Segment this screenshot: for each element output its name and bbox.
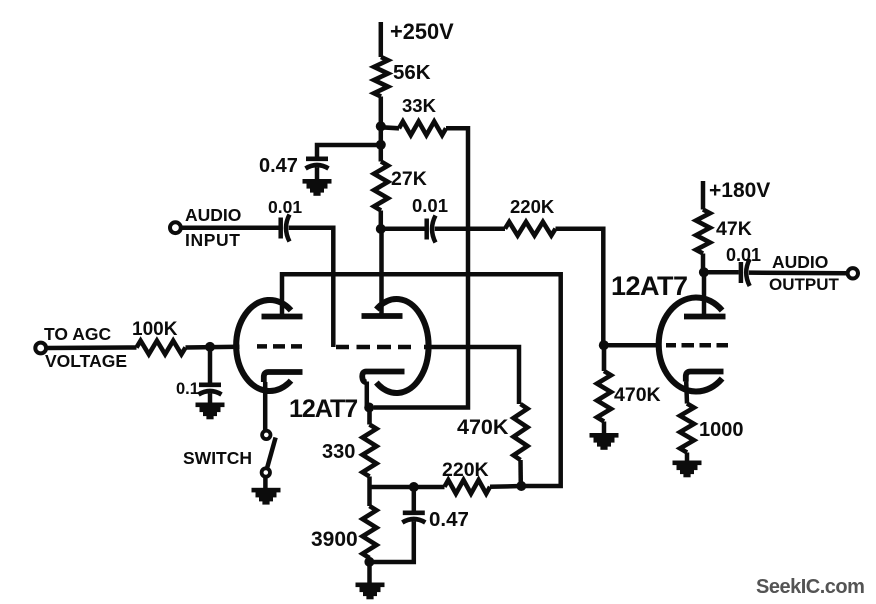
svg-text:INPUT: INPUT [185, 230, 241, 250]
svg-text:SeekIC.com: SeekIC.com [756, 576, 864, 598]
resistor 3900 [311, 506, 377, 558]
svg-text:0.01: 0.01 [412, 195, 448, 216]
wire 27K bottom to plate node [379, 211, 384, 230]
wire 1000 to ground [685, 453, 690, 462]
node junction dot bypass branch [376, 140, 386, 150]
wire output cap to terminal [749, 270, 848, 275]
ground for switch [252, 488, 281, 505]
svg-text:0.47: 0.47 [259, 155, 298, 177]
resistor 220K bottom [442, 459, 490, 494]
terminal TO AGC VOLTAGE [35, 324, 127, 371]
wire output cathode lead [684, 382, 689, 404]
node junction dot plate node [376, 224, 386, 234]
svg-text:12AT7: 12AT7 [289, 395, 357, 423]
resistor 470K right [597, 345, 661, 421]
svg-text:SWITCH: SWITCH [183, 448, 252, 468]
wire AGC input to 100K [46, 345, 137, 350]
wire triode B cathode lead [367, 382, 369, 408]
ground for 0.47 decoupling [303, 179, 332, 196]
triode B grid (dashed) [336, 345, 411, 350]
wire grid B to 470K [424, 347, 519, 404]
svg-text:+180V: +180V [709, 179, 770, 202]
wire cathode node to 220K bottom [370, 485, 445, 490]
svg-text:AUDIO: AUDIO [772, 252, 828, 272]
svg-text:1000: 1000 [699, 419, 744, 441]
wire +180V lead [701, 181, 706, 210]
ground for 470K right [590, 433, 619, 450]
svg-text:TO AGC: TO AGC [44, 324, 111, 344]
wire 3900 to ground [367, 558, 372, 584]
resistor 100K [132, 319, 186, 354]
svg-text:470K: 470K [614, 384, 661, 406]
svg-text:+250V: +250V [390, 19, 454, 44]
wire 220K bottom to bus node [490, 484, 521, 489]
wire 33K to cathode feed [374, 128, 468, 407]
output tube cathode hook [686, 372, 724, 382]
wire 470K right to ground [602, 422, 607, 435]
svg-text:0.01: 0.01 [268, 197, 302, 217]
capacitor 0.01 output coupling [726, 245, 761, 286]
svg-text:OUTPUT: OUTPUT [769, 275, 840, 294]
svg-text:AUDIO: AUDIO [185, 205, 241, 225]
wire triode A cathode to switch [263, 382, 268, 431]
wire 47K to plate node [701, 254, 706, 273]
wire plate bus triode A [282, 274, 561, 486]
node junction dot AGC/0.1 [205, 342, 215, 352]
output tube envelope [659, 298, 722, 392]
svg-text:0.1: 0.1 [176, 380, 199, 398]
svg-text:0.47: 0.47 [429, 508, 469, 531]
svg-text:220K: 220K [442, 459, 489, 481]
resistor 47K [696, 210, 752, 254]
triode A envelope [236, 300, 291, 391]
capacitor 0.1 AGC bypass [176, 347, 222, 404]
resistor 33K [382, 95, 446, 135]
resistor 330 [322, 408, 377, 477]
wire interstage cap to 220K [435, 226, 505, 231]
ground for 0.1 [196, 403, 225, 420]
svg-text:220K: 220K [510, 196, 555, 217]
svg-text:27K: 27K [391, 168, 427, 190]
svg-text:100K: 100K [132, 319, 178, 340]
capacitor 0.47 cathode bypass [370, 487, 469, 562]
wire bypass branch to 0.47 [317, 145, 381, 159]
svg-text:VOLTAGE: VOLTAGE [45, 351, 127, 371]
wire plate node to output cap [704, 270, 739, 275]
wire 470K middle to bottom node [518, 460, 523, 486]
wire input to coupling cap [181, 225, 279, 230]
switch SW1 [183, 431, 276, 489]
resistor 220K top [505, 196, 556, 236]
capacitor 0.47 decoupling [259, 155, 329, 180]
wire 100K to grid of triode A [186, 345, 240, 350]
triode A cathode hook [264, 372, 303, 382]
node junction dot output grid [599, 340, 609, 350]
node junction dot 0.47 branch [409, 482, 419, 492]
svg-text:470K: 470K [457, 415, 509, 439]
triode A plate [262, 314, 303, 320]
capacitor 0.01 input coupling [268, 197, 302, 242]
svg-text:12AT7: 12AT7 [611, 271, 688, 301]
triode B cathode hook [362, 372, 404, 383]
resistor 470K middle [457, 404, 528, 460]
svg-text:47K: 47K [716, 218, 752, 240]
node junction dot output plate [699, 267, 709, 277]
wire 330 to 3900 [367, 477, 372, 507]
wire input cap to grid of triode B [289, 228, 334, 347]
wire plate lead triode B [379, 229, 384, 316]
svg-text:330: 330 [322, 441, 355, 463]
node junction dot 56K/33K/27K [376, 121, 386, 131]
triode A grid (dashed) [257, 344, 302, 349]
capacitor 0.01 interstage [381, 195, 448, 243]
ground for 3900 [356, 583, 385, 600]
triode B plate [362, 313, 403, 319]
output tube plate [684, 314, 726, 320]
wire B+ node segment [379, 97, 384, 162]
node junction dot 3900/0.47 [364, 557, 374, 567]
ground for 1000 [673, 461, 702, 478]
svg-text:0.01: 0.01 [726, 245, 761, 265]
resistor 56K [374, 57, 431, 97]
terminal AUDIO OUTPUT [769, 252, 858, 294]
wire grid node to output tube [604, 343, 659, 348]
terminal AUDIO INPUT [170, 205, 241, 250]
wire 220K top to output grid [556, 229, 604, 346]
node junction dot cathode B [364, 403, 374, 413]
svg-text:56K: 56K [393, 61, 431, 84]
triode B envelope [376, 299, 428, 393]
wire output plate lead [702, 272, 707, 316]
node junction dot 220K/470K/bus [516, 481, 526, 491]
resistor 27K [374, 162, 427, 211]
svg-text:33K: 33K [402, 95, 437, 116]
resistor 1000 [680, 404, 744, 453]
svg-text:3900: 3900 [311, 528, 358, 551]
output tube grid (dashed) [666, 343, 728, 348]
wire +250V supply lead [379, 22, 384, 57]
